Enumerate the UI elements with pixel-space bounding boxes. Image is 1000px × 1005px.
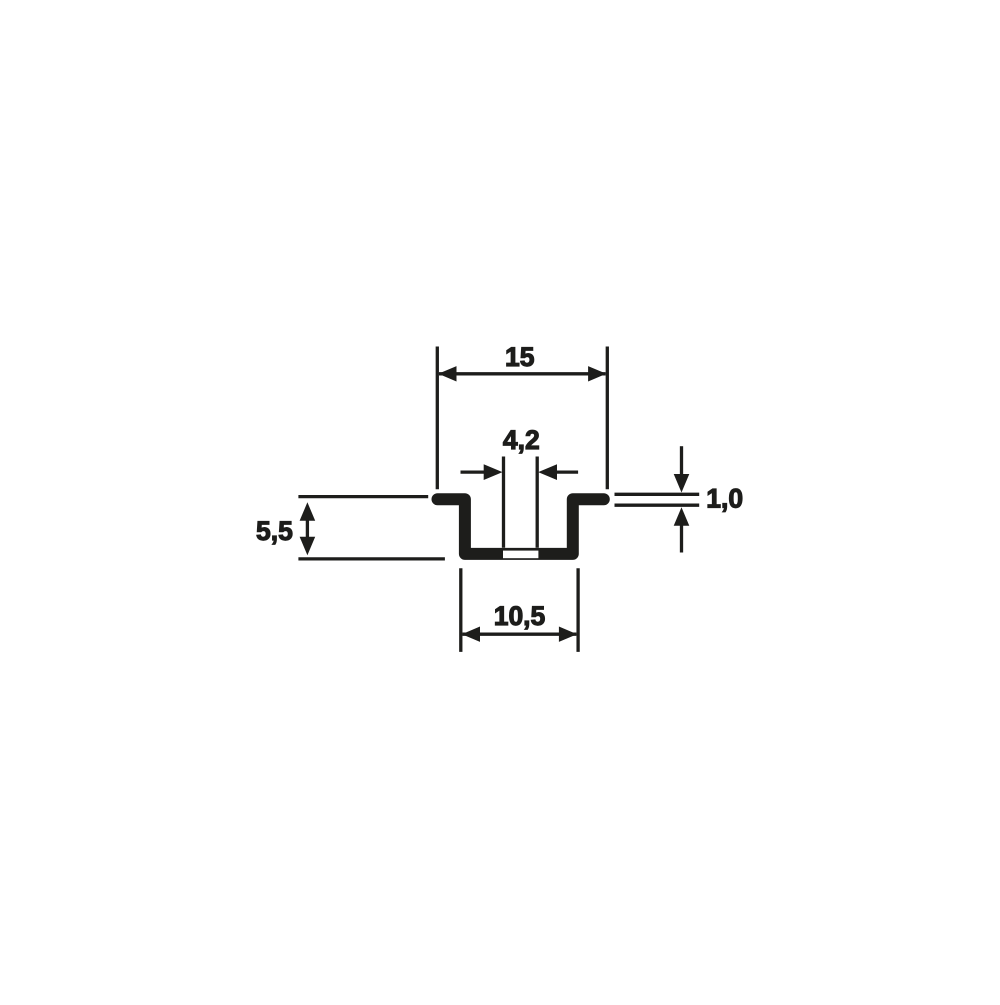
- extension line right of dim 15: [606, 347, 609, 490]
- extension line bottom of dim 5,5: [298, 557, 445, 560]
- extension line bottom of dim 1,0: [615, 504, 700, 507]
- leader line bottom of dim 1,0: [680, 523, 683, 553]
- dimension line 10,5: [463, 633, 577, 636]
- extension line left of dim 15: [436, 347, 439, 490]
- leader line left of dim 4,2: [461, 470, 489, 473]
- leader line of dim 5,5: [306, 516, 309, 541]
- leader line right of dim 4,2: [553, 470, 579, 473]
- arrowhead left of dim 10,5: [462, 627, 480, 642]
- arrowhead bottom of dim 5,5: [300, 537, 316, 556]
- extension line right of dim 10,5: [576, 568, 579, 652]
- arrowhead right of dim 15: [588, 366, 606, 381]
- arrowhead left of dim 15: [438, 366, 456, 381]
- arrowhead top of dim 5,5: [300, 502, 316, 521]
- svg-text:5,5: 5,5: [256, 516, 293, 546]
- arrowhead left of dim 4,2: [484, 464, 503, 480]
- svg-text:1,0: 1,0: [706, 484, 743, 514]
- extension line right of dim 4,2: [536, 457, 539, 548]
- extension line left of dim 10,5: [459, 568, 462, 652]
- leader line top of dim 1,0: [680, 446, 683, 477]
- dimension line 15: [439, 372, 606, 375]
- arrowhead right of dim 10,5: [559, 627, 577, 642]
- extension line top of dim 1,0: [615, 493, 700, 496]
- arrowhead bottom of dim 1,0: [674, 507, 690, 526]
- svg-text:10,5: 10,5: [494, 601, 546, 631]
- arrowhead top of dim 1,0: [674, 474, 690, 493]
- svg-text:15: 15: [505, 342, 534, 372]
- extension line left of dim 4,2: [502, 457, 505, 548]
- extension line top of dim 5,5: [298, 495, 428, 498]
- slot opening in channel base: [503, 551, 538, 559]
- arrowhead right of dim 4,2: [538, 464, 557, 480]
- profile cross-section (hat channel): [438, 499, 604, 554]
- svg-text:4,2: 4,2: [503, 425, 540, 455]
